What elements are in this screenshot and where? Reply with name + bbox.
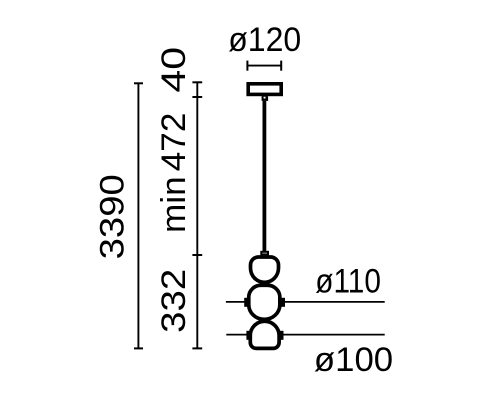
tick right ø120 bbox=[280, 61, 282, 71]
middle bead left tab bbox=[244, 298, 249, 307]
svg-text:40: 40 bbox=[154, 47, 192, 93]
tick y348 bbox=[192, 347, 202, 349]
svg-text:ø100: ø100 bbox=[314, 342, 393, 380]
diameter line ø100 right segment bbox=[283, 334, 385, 336]
tick left ø120 bbox=[246, 61, 248, 71]
middle bead glass bbox=[249, 285, 280, 319]
dimension line ø120 bbox=[247, 65, 281, 67]
tick bottom 3390 bbox=[134, 347, 143, 349]
middle bead right tab bbox=[281, 298, 286, 307]
diameter line ø100 left segment bbox=[226, 334, 247, 336]
dimension line right (40 / min 472 / 332) bbox=[196, 82, 198, 348]
svg-text:3390: 3390 bbox=[93, 174, 132, 259]
svg-text:ø110: ø110 bbox=[315, 261, 381, 299]
bottom bead right tab bbox=[279, 331, 284, 340]
suspension rod bbox=[262, 101, 266, 251]
dimension line 3390 bbox=[137, 83, 139, 348]
top bead glass bbox=[251, 257, 279, 282]
diameter line ø110 left segment bbox=[226, 301, 246, 303]
tick y82 bbox=[192, 81, 202, 83]
svg-text:332: 332 bbox=[154, 269, 192, 333]
bottom bead glass bbox=[250, 321, 279, 348]
diameter line ø110 right segment bbox=[284, 301, 385, 303]
canopy nub bbox=[262, 96, 269, 101]
tick y97 bbox=[192, 96, 202, 98]
rod end connector bbox=[261, 252, 268, 255]
svg-text:min 472: min 472 bbox=[155, 113, 192, 234]
tick top 3390 bbox=[134, 82, 143, 84]
tick y255 bbox=[192, 254, 202, 256]
ceiling canopy plate bbox=[248, 84, 281, 95]
bottom bead left tab bbox=[246, 331, 251, 340]
canopy nub notch bbox=[264, 97, 266, 99]
svg-text:ø120: ø120 bbox=[228, 20, 301, 58]
